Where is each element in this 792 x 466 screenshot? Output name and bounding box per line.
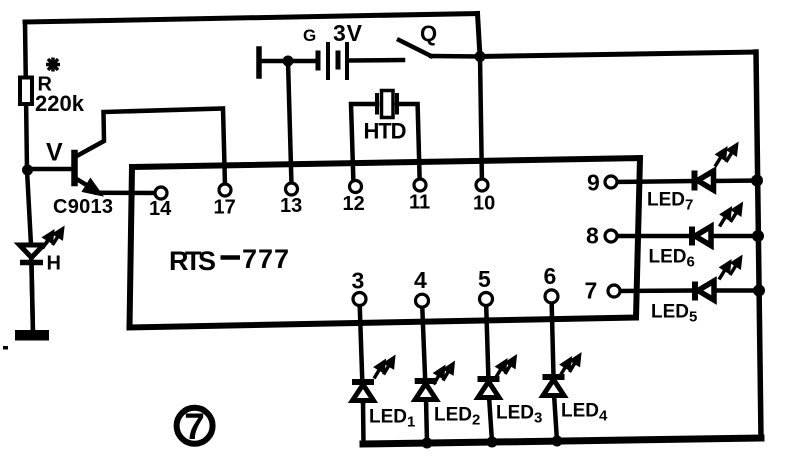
LED6 emission arrows [720,205,742,227]
LED7 (left-pointing) [695,171,714,191]
svg-text:6: 6 [544,263,557,289]
svg-text:10: 10 [473,193,495,215]
svg-text:7: 7 [585,278,598,304]
node LED3 rail dot [487,437,498,448]
node LED7 rail dot [751,175,763,187]
svg-text:3: 3 [352,268,365,294]
LED2 emission arrows [434,364,454,385]
wire battery to switch [349,58,403,63]
wire battery left to junction [259,59,316,64]
svg-text:9: 9 [587,170,600,196]
svg-text:17: 17 [214,197,236,219]
battery G cell plate long 1 [326,44,330,78]
wire left rail [25,22,33,334]
wire top rail [25,14,478,23]
wire pin 3 column to LED1 [360,299,364,402]
transistor V emitter stroke [75,178,99,193]
wire LED5 to right rail [714,288,759,293]
node switch junction dot [475,51,486,62]
svg-text:8: 8 [586,223,599,249]
svg-text:V: V [46,139,63,167]
wire LED H lead to ground [32,263,34,334]
wire battery left terminal bar [256,49,262,76]
wire emitter to pin 14 [97,190,161,195]
figure number circled 7 [177,406,213,447]
wire collector loop to pin 17 [75,109,225,187]
node LED4 rail dot [552,436,563,447]
wire bottom rail [363,438,761,444]
svg-text:HTD: HTD [364,119,407,144]
wire switch node to right rail [480,52,756,57]
switch Q lever [399,40,431,56]
wire LED2 to bottom rail [426,398,427,443]
wire right rail [756,52,761,438]
svg-text:G: G [303,26,316,45]
LED7 emission arrows [715,145,737,167]
crystal HTD right plate [395,95,399,113]
wire pin 7 to LED5 [614,288,692,293]
node LED2 rail dot [422,438,433,449]
LED1 (up-pointing, bar on top) [352,382,374,401]
svg-text:H: H [47,253,61,275]
LED H emission arrows [43,229,63,249]
wire LED6 to right rail [711,234,758,239]
node LED6 rail dot [752,230,764,242]
LED H (triangle down + bar) [20,245,44,263]
wire node 13 drop from battery junction [288,61,292,185]
battery G cell plate short 2 [336,53,341,67]
resistor R1 220k body [20,78,32,105]
pin 17 circle [219,184,231,196]
wire LED4 to bottom rail [554,394,557,441]
LED4 (up-pointing) [543,377,565,396]
svg-text:13: 13 [280,195,302,217]
svg-text:3V: 3V [333,20,363,46]
crystal HTD body [382,91,394,118]
crystal HTD left plate [375,95,379,113]
node LED5 rail dot [753,285,765,297]
pin 13 circle [286,183,298,195]
battery G cell plate long 2 [345,44,349,78]
LED1 emission arrows [374,358,394,379]
wire pin 9 to LED7 [611,181,692,182]
svg-text:RTS: RTS [169,246,216,276]
LED2 (up-pointing) [415,381,437,400]
pin 5 circle [480,293,493,306]
svg-text:14: 14 [149,198,172,220]
transistor V base bar [71,153,78,183]
pin 10 circle [476,179,488,191]
pin 8 circle [605,230,617,242]
pin 11 circle [414,179,426,191]
LED4 emission arrows [560,356,580,377]
LED5 (left-pointing) [695,281,714,301]
pin 14 circle [155,187,167,199]
pin 12 circle [350,181,362,193]
node battery junction dot [283,56,294,67]
resistor R asterisk mark [46,58,60,72]
node transistor base junction dot [22,165,33,176]
wire LED1 to bottom rail [361,400,366,444]
LED3 emission arrows [496,358,516,379]
label RTS-777 [169,244,289,276]
LED6 (left-pointing) [692,227,711,246]
wire switch lever to node [431,54,480,59]
wire HTD left lead [351,104,377,185]
svg-text:11: 11 [409,192,430,214]
pin 9 circle [605,176,617,188]
pin 6 circle [545,290,558,303]
LED5 emission arrows [719,258,741,280]
ground [3,330,49,350]
wire top-right corner drop to switch node [478,14,481,57]
wire pin 6 column to LED4 [552,296,555,396]
battery G cell plate short 1 [316,53,321,68]
svg-text:4: 4 [414,267,427,293]
wire base of transistor [27,167,72,172]
IC U1 RTS-777 box [130,158,641,328]
wire LED3 to bottom rail [489,396,492,442]
wire pin 4 column to LED2 [422,301,426,400]
wire LED7 to right rail [713,178,757,183]
wire HTD right lead [397,104,420,185]
svg-text:12: 12 [343,193,365,215]
wire pin 5 column to LED3 [486,299,489,398]
pin 3 circle [353,293,366,306]
svg-text:777: 777 [242,244,289,274]
wire pin 8 to LED6 [611,234,689,239]
pin 7 circle [608,285,620,297]
LED3 (up-pointing) [478,379,500,398]
wire node 10 drop from switch node [480,57,482,186]
svg-text:5: 5 [478,266,491,292]
svg-text:220k: 220k [35,91,85,116]
svg-text:Q: Q [420,21,437,46]
pin 4 circle [416,294,429,307]
svg-text:7: 7 [184,406,205,447]
transistor V emitter arrowhead [84,181,100,194]
svg-text:C9013: C9013 [53,196,113,218]
